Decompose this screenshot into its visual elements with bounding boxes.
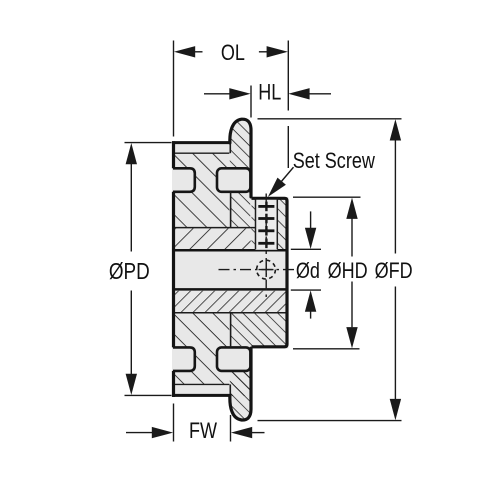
rim strip line top <box>174 152 229 154</box>
dim FD down arrow <box>390 399 401 420</box>
dim FD up arrow <box>390 119 401 140</box>
tooth notch top-left <box>173 168 195 192</box>
body left face edge <box>172 141 175 397</box>
dim d top arrow <box>310 211 312 228</box>
dim HD extension bottom <box>293 348 360 350</box>
body top edge <box>172 141 230 144</box>
dim PD up arrow <box>126 143 137 164</box>
flange lower zone hatch <box>231 371 251 396</box>
inner band line lower <box>174 312 287 314</box>
svg-text:Set Screw: Set Screw <box>293 150 376 174</box>
body bottom edge <box>172 394 230 397</box>
rim strip right edge top <box>229 143 231 154</box>
dim HL right arrow <box>288 88 309 99</box>
hub outline <box>252 198 288 346</box>
bore centerline <box>219 269 297 271</box>
set screw centerline <box>265 194 267 300</box>
flange top tip hatch <box>230 119 251 168</box>
svg-text:ØHD: ØHD <box>328 259 368 283</box>
tooth notch bottom-left <box>173 347 195 371</box>
upper middle band hatch <box>175 228 251 249</box>
relief recess bottom-right <box>217 347 250 371</box>
bore center cross <box>259 262 274 277</box>
hub+flange lower zone hatch <box>231 313 286 346</box>
set screw thread bars <box>258 202 274 249</box>
pulley body silhouette <box>172 119 289 420</box>
bore top edge <box>172 249 286 252</box>
dim FD line <box>394 140 396 400</box>
dim FW extension right <box>230 415 232 442</box>
svg-text:OL: OL <box>221 42 245 66</box>
dim FW extension left <box>173 404 175 442</box>
body-flange seam upper <box>230 192 232 228</box>
body bottom band hatch <box>175 313 230 384</box>
dim HD down arrow <box>346 327 357 348</box>
dim HD extension top <box>293 196 361 198</box>
svg-text:FW: FW <box>189 420 217 444</box>
relief recess top-right <box>217 168 250 192</box>
set screw leader arrow <box>268 178 286 197</box>
lower middle band hatch <box>175 291 286 312</box>
dim HD up arrow <box>346 198 357 219</box>
dim PD down arrow <box>126 374 137 395</box>
svg-text:Ød: Ød <box>296 259 320 283</box>
dim d extension bottom <box>291 289 321 291</box>
flange upper zone hatch <box>231 192 251 228</box>
dim FW right arrow <box>231 427 252 438</box>
flange bottom outline <box>230 348 251 420</box>
dim PD line <box>130 164 132 375</box>
dim HL extension left <box>250 86 252 118</box>
set screw leader line <box>272 167 294 192</box>
hub upper-left sliver hatch <box>252 198 256 249</box>
dim FD extension bottom <box>258 420 402 422</box>
bore bottom edge <box>172 288 286 291</box>
dim d extension top <box>291 248 321 250</box>
bore center circle <box>257 260 276 279</box>
dim PD extension bottom <box>125 394 172 396</box>
dim HL left line and arrow <box>204 93 230 95</box>
inner band line upper <box>174 227 256 229</box>
body-flange seam lower <box>230 313 232 348</box>
rim strip line bottom <box>174 383 229 385</box>
svg-text:ØPD: ØPD <box>109 259 150 284</box>
svg-text:HL: HL <box>258 81 281 105</box>
dim FD extension top <box>258 118 402 120</box>
dim OL left arrow <box>174 46 195 57</box>
flange top outline <box>230 119 251 197</box>
dim FW left arrow <box>126 432 153 434</box>
dim OL extension left <box>173 41 175 137</box>
set screw hole <box>256 200 278 250</box>
dim OL right arrow <box>267 46 288 57</box>
rim strip right edge bottom <box>229 384 231 395</box>
dim PD extension top <box>125 142 172 144</box>
body top band hatch <box>175 153 230 227</box>
dim OL extension right <box>287 41 289 169</box>
hub upper-right column hatch <box>278 198 287 249</box>
dim d bottom arrow <box>305 290 316 311</box>
svg-text:ØFD: ØFD <box>375 259 413 283</box>
flange bottom tip hatch <box>230 371 251 420</box>
